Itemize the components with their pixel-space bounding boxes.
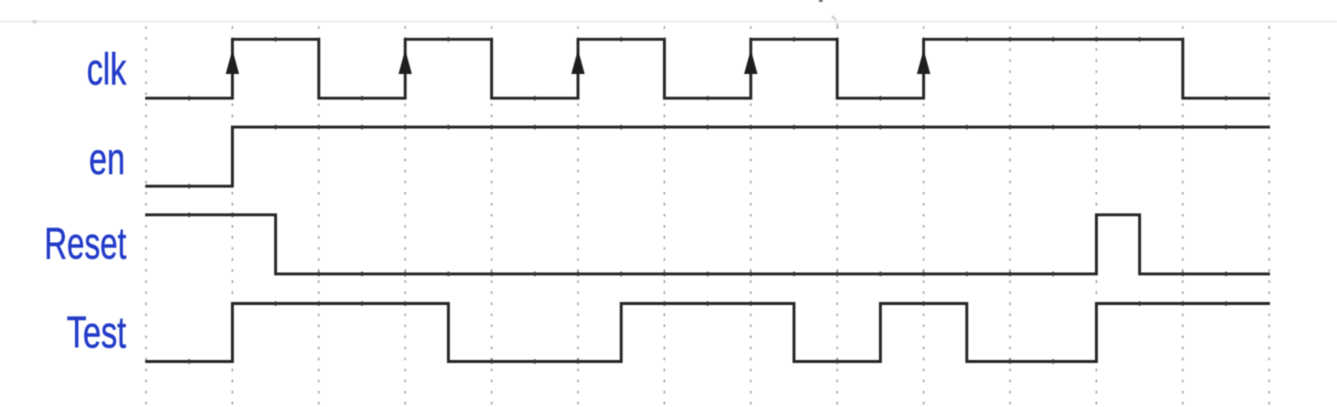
svg-text:Reset: Reset [44, 219, 126, 269]
clk rising-edge arrow 4 [744, 50, 757, 75]
screen artifact: faint smudge below dot [832, 16, 838, 28]
clk half-grid tick marks [189, 37, 1226, 101]
en half-grid tick marks [189, 125, 1226, 189]
clk rising-edge arrow 1 [226, 50, 239, 75]
svg-text:clk: clk [87, 45, 127, 94]
svg-text:en: en [89, 135, 125, 184]
wire: clk waveform [145, 39, 1270, 98]
clk rising-edge arrow 3 [571, 50, 584, 75]
time grid: dotted vertical gridlines [146, 26, 1269, 407]
wire: en waveform [145, 127, 1270, 186]
svg-text:Test: Test [67, 308, 127, 357]
Test half-grid tick marks [189, 301, 1226, 364]
Reset half-grid tick marks [189, 213, 1226, 277]
faint horizontal divider line at top [0, 21, 1337, 23]
wire: Test waveform [145, 304, 1270, 362]
clk rising-edge arrow 5 [917, 50, 930, 75]
screen artifact: small dark dot top center-right [819, 0, 823, 2]
wire: Reset waveform [145, 215, 1270, 274]
clk rising-edge arrow 2 [399, 50, 412, 75]
screen artifact: faint smudge on divider left [33, 20, 37, 23]
